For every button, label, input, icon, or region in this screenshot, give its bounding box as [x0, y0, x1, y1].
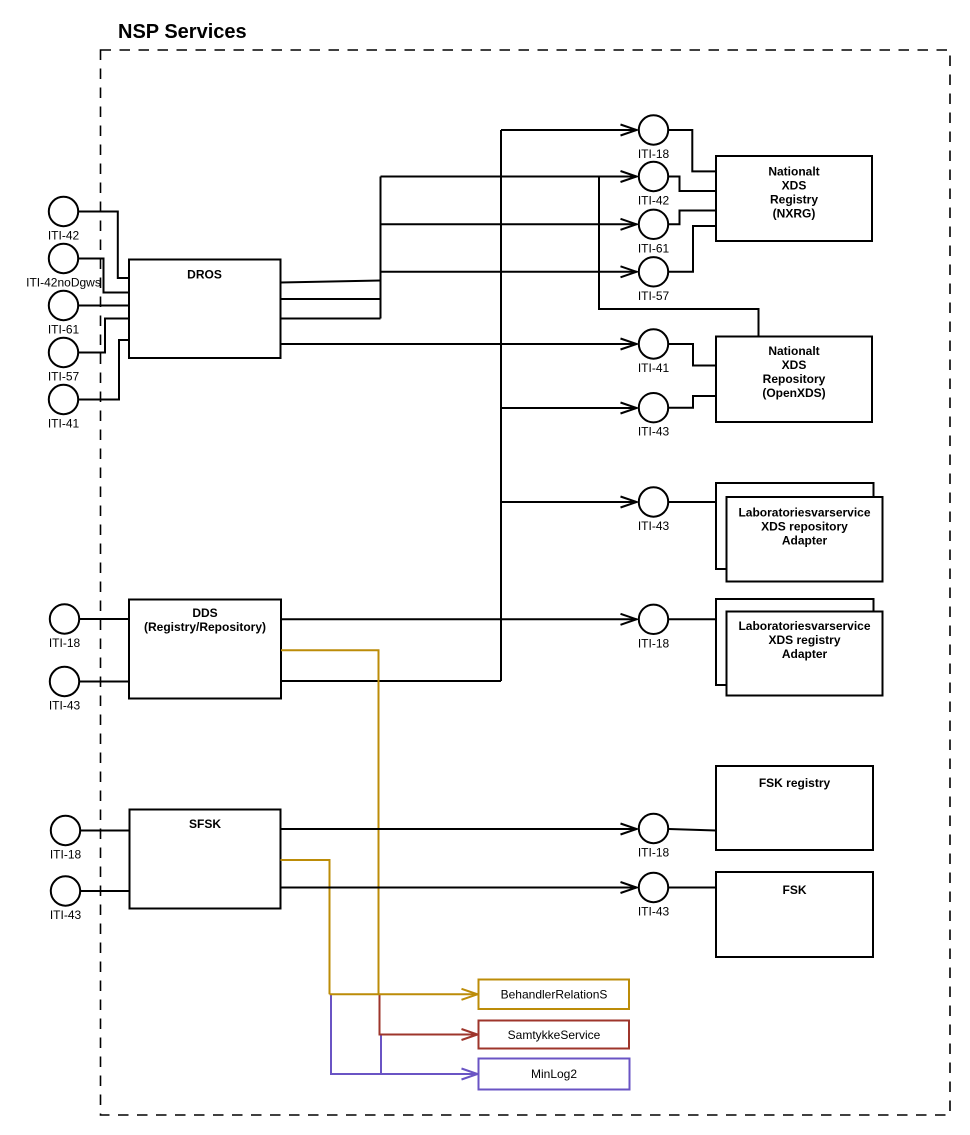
- svg-text:(Registry/Repository): (Registry/Repository): [144, 620, 266, 634]
- svg-text:SFSK: SFSK: [189, 817, 221, 831]
- interface circle ITI-43 (left of SFSK): [51, 876, 80, 905]
- svg-text:ITI-42: ITI-42: [48, 229, 80, 243]
- box DROS: [129, 260, 281, 359]
- wire DROS to ITI-41 circle: [281, 339, 637, 350]
- wire gold SFSK to BehandlerRelationS: [281, 860, 330, 994]
- label ITI-18: [638, 846, 670, 860]
- svg-text:Nationalt: Nationalt: [768, 165, 819, 179]
- interface circle ITI-18 (middle column #1): [639, 115, 668, 144]
- svg-text:ITI-43: ITI-43: [638, 519, 670, 533]
- svg-text:ITI-57: ITI-57: [638, 289, 670, 303]
- box Laboratoriesvarservice XDS repository Adapter (back): [716, 483, 874, 569]
- interface circle ITI-42 (left of DROS): [49, 197, 78, 226]
- title NSP Services: [118, 21, 247, 43]
- wire row to ITI-57 circle: [381, 266, 637, 277]
- wire ITI-57 circle to NXRG: [669, 226, 716, 272]
- wire ITI-61 to DROS: [79, 305, 129, 307]
- box BehandlerRelationS: [479, 980, 630, 1010]
- svg-text:Laboratoriesvarservice: Laboratoriesvarservice: [738, 506, 870, 520]
- box SFSK: [130, 810, 281, 909]
- label ITI-41: [48, 417, 80, 431]
- svg-text:ITI-41: ITI-41: [638, 361, 670, 375]
- svg-text:DDS: DDS: [192, 606, 217, 620]
- svg-text:ITI-18: ITI-18: [638, 636, 670, 650]
- label ITI-18: [49, 636, 81, 650]
- label ITI-43: [638, 519, 670, 533]
- svg-text:SamtykkeService: SamtykkeService: [508, 1028, 601, 1042]
- label ITI-18: [638, 636, 670, 650]
- svg-text:ITI-18: ITI-18: [638, 147, 670, 161]
- svg-text:Adapter: Adapter: [782, 647, 828, 661]
- svg-text:FSK: FSK: [783, 883, 807, 897]
- interface circle ITI-43 (middle column #6): [639, 393, 668, 422]
- svg-text:Laboratoriesvarservice: Laboratoriesvarservice: [738, 619, 870, 633]
- label ITI-18: [50, 848, 82, 862]
- wire gold DDS to BehandlerRelationS: [281, 650, 379, 994]
- svg-text:ITI-43: ITI-43: [50, 908, 82, 922]
- svg-text:ITI-57: ITI-57: [48, 370, 80, 384]
- box SamtykkeService: [479, 1021, 630, 1049]
- wire ITI-43 circle to lab repository adapter: [669, 501, 716, 503]
- interface circle ITI-18 (middle column #9): [639, 814, 668, 843]
- svg-text:XDS repository: XDS repository: [761, 520, 848, 534]
- svg-text:Repository: Repository: [763, 372, 826, 386]
- svg-text:NSP Services: NSP Services: [118, 21, 247, 43]
- wire ITI-18 circle to NXRG: [669, 130, 716, 171]
- box Laboratoriesvarservice XDS registry Adapter (front): [727, 612, 883, 696]
- svg-text:Adapter: Adapter: [782, 534, 828, 548]
- wire riser C to Repository top: [599, 177, 759, 337]
- wire ITI-18 to SFSK: [81, 830, 130, 832]
- wire ITI-18 circle to lab registry adapter: [669, 618, 716, 620]
- svg-text:ITI-42: ITI-42: [638, 194, 670, 208]
- wire ITI-43 to DDS: [80, 681, 129, 683]
- label ITI-43: [49, 699, 81, 713]
- interface circle ITI-61 (left of DROS): [49, 291, 78, 320]
- wire row to ITI-18 circle (top): [501, 125, 637, 136]
- label ITI-41: [638, 361, 670, 375]
- wire row to ITI-43 circle (repository): [501, 403, 637, 414]
- wire DROS out 1 to riser A: [281, 281, 381, 283]
- svg-text:ITI-18: ITI-18: [50, 848, 82, 862]
- box Laboratoriesvarservice XDS repository Adapter (front): [727, 497, 883, 582]
- wire row to ITI-61 circle: [381, 219, 637, 230]
- svg-text:ITI-61: ITI-61: [48, 323, 80, 337]
- box FSK registry: [716, 766, 873, 850]
- svg-text:ITI-42noDgws: ITI-42noDgws: [26, 276, 101, 290]
- svg-text:XDS registry: XDS registry: [768, 633, 840, 647]
- wire ITI-41 to DROS: [79, 340, 129, 400]
- label ITI-43: [638, 905, 670, 919]
- interface circle ITI-41 (left of DROS): [49, 385, 78, 414]
- interface circle ITI-57 (middle column #4): [639, 257, 668, 286]
- svg-text:FSK registry: FSK registry: [759, 776, 831, 790]
- interface circle ITI-41 (middle column #5): [639, 329, 668, 358]
- box FSK: [716, 872, 873, 957]
- wire ITI-42 to DROS: [79, 212, 129, 279]
- wire ITI-18 to DDS: [80, 618, 129, 620]
- svg-text:ITI-41: ITI-41: [48, 417, 80, 431]
- wire SFSK ITI-43 row: [281, 882, 637, 893]
- interface circle ITI-43 (middle column #10): [639, 873, 668, 902]
- label ITI-57: [638, 289, 670, 303]
- wire ITI-41 circle to Repository: [669, 344, 716, 366]
- box DDS (Registry/Repository): [129, 600, 281, 699]
- wire ITI-57 to DROS: [79, 319, 129, 353]
- svg-text:(OpenXDS): (OpenXDS): [762, 386, 825, 400]
- wire DROS out 3 to riser A: [281, 318, 381, 320]
- label ITI-18: [638, 147, 670, 161]
- svg-text:ITI-43: ITI-43: [638, 905, 670, 919]
- wire SFSK ITI-18 row: [281, 824, 637, 835]
- svg-text:DROS: DROS: [187, 268, 222, 282]
- label ITI-57: [48, 370, 80, 384]
- label ITI-42: [638, 194, 670, 208]
- interface circle ITI-18 (left of SFSK): [51, 816, 80, 845]
- svg-text:ITI-18: ITI-18: [49, 636, 81, 650]
- svg-text:ITI-18: ITI-18: [638, 846, 670, 860]
- wire red DDS to SamtykkeService: [380, 994, 478, 1040]
- wire riser A vertical: [380, 177, 382, 319]
- wire DDS ITI-43 to riser B: [281, 680, 501, 682]
- svg-text:XDS: XDS: [782, 358, 807, 372]
- interface circle ITI-42 (middle column #2): [639, 162, 668, 191]
- wire row to ITI-42 circle: [381, 171, 637, 182]
- wire DDS ITI-18 row: [281, 614, 637, 625]
- interface circle ITI-57 (left of DROS): [49, 338, 78, 367]
- wire ITI-43 to SFSK: [81, 890, 130, 892]
- interface circle ITI-42noDgws (left of DROS): [49, 244, 78, 273]
- box MinLog2: [479, 1059, 630, 1090]
- svg-text:ITI-61: ITI-61: [638, 241, 670, 255]
- label ITI-43: [50, 908, 82, 922]
- wire ITI-61 circle to NXRG: [669, 211, 716, 225]
- svg-text:BehandlerRelationS: BehandlerRelationS: [501, 988, 608, 1002]
- interface circle ITI-18 (middle column #8): [639, 605, 668, 634]
- wire ITI-43 circle to FSK: [669, 887, 716, 889]
- svg-text:ITI-43: ITI-43: [638, 425, 670, 439]
- label ITI-42noDgws: [26, 276, 101, 290]
- label ITI-42: [48, 229, 80, 243]
- interface circle ITI-61 (middle column #3): [639, 210, 668, 239]
- label ITI-61: [48, 323, 80, 337]
- svg-text:MinLog2: MinLog2: [531, 1067, 577, 1081]
- wire DROS out 2 to riser A: [281, 298, 381, 300]
- svg-text:XDS: XDS: [782, 179, 807, 193]
- interface circle ITI-18 (left of DDS): [50, 604, 79, 633]
- svg-text:Nationalt: Nationalt: [768, 344, 819, 358]
- interface circle ITI-43 (middle column #7): [639, 487, 668, 516]
- wire ITI-42noDgws to DROS: [79, 259, 129, 293]
- wire row to ITI-43 circle (lab repository): [501, 497, 637, 508]
- label ITI-61: [638, 241, 670, 255]
- label ITI-43: [638, 425, 670, 439]
- svg-text:Registry: Registry: [770, 193, 818, 207]
- box Laboratoriesvarservice XDS registry Adapter (back): [716, 599, 874, 685]
- wire ITI-18 circle to FSK registry: [669, 829, 716, 831]
- wire ITI-43 circle to Repository: [669, 396, 716, 408]
- wire gold BehandlerRelationS horizontal: [330, 989, 478, 1000]
- wire riser B vertical: [500, 130, 502, 681]
- wire purple SFSK to MinLog2: [331, 994, 478, 1079]
- wire purple DDS to MinLog2: [380, 1035, 382, 1075]
- svg-text:(NXRG): (NXRG): [773, 207, 816, 221]
- interface circle ITI-43 (left of DDS): [50, 667, 79, 696]
- svg-text:ITI-43: ITI-43: [49, 699, 81, 713]
- box Nationalt XDS Repository (OpenXDS): [716, 337, 872, 423]
- wire ITI-42 circle to NXRG: [669, 177, 716, 192]
- box Nationalt XDS Registry (NXRG): [716, 156, 872, 241]
